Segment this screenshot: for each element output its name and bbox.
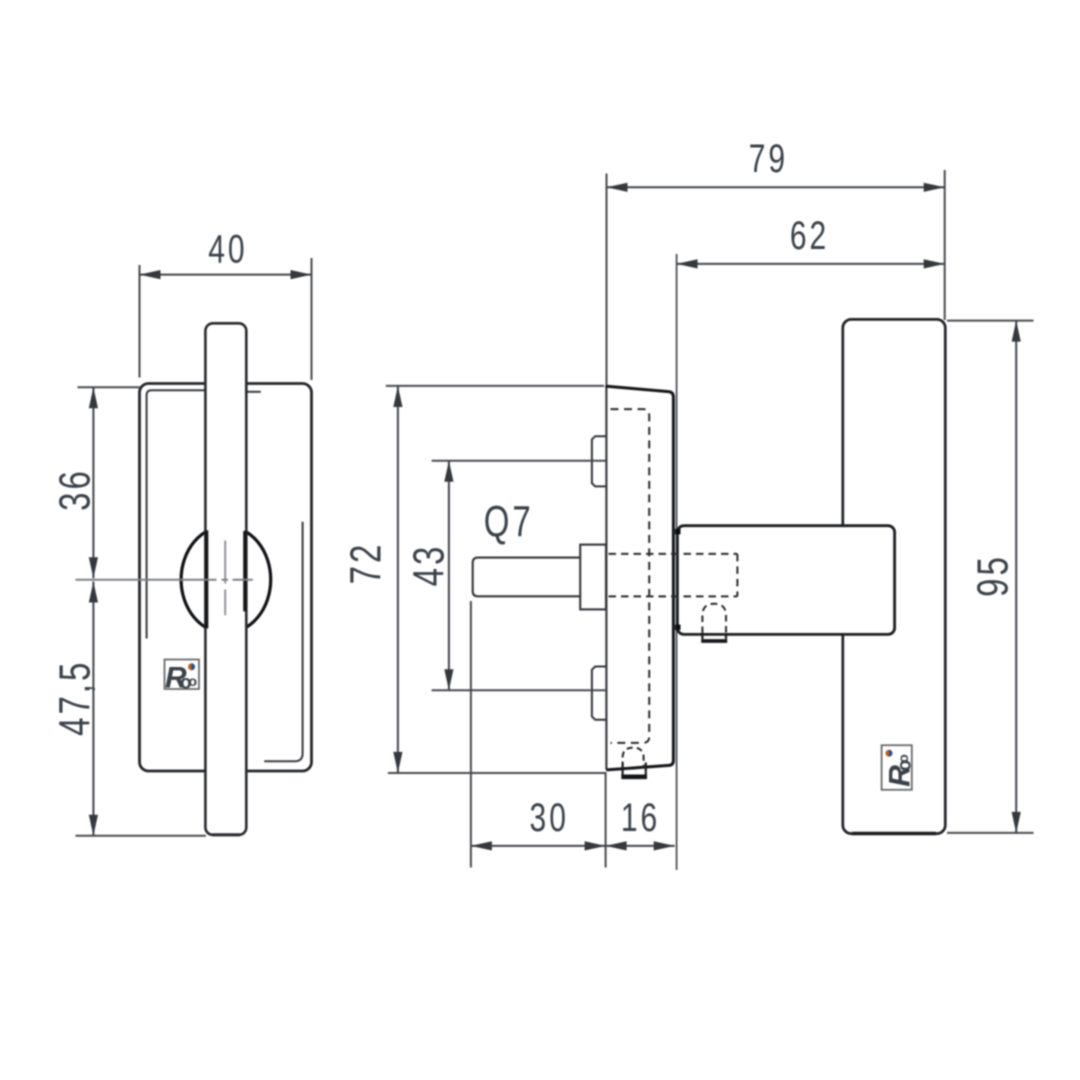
dimension 95 <box>947 321 1034 833</box>
front view: plate outer outline <box>140 384 312 772</box>
svg-text:43: 43 <box>405 544 454 587</box>
side view: top screw boss <box>592 436 606 486</box>
front view: rosette circle <box>181 526 271 633</box>
dimension 47,5 <box>51 582 206 836</box>
front view: horizontal centerline <box>76 579 253 581</box>
front view: vertical centerline <box>224 541 226 616</box>
front view: neck edges (thick) <box>205 530 208 628</box>
dimension 36 <box>51 387 139 578</box>
svg-text:o: o <box>189 673 202 689</box>
side view: Roto logo on grip (rotated) <box>882 745 917 790</box>
svg-text:Q7: Q7 <box>484 498 534 547</box>
svg-text:62: 62 <box>790 214 829 258</box>
front view: plate inner bevel top-left <box>147 390 206 638</box>
side view: neck clip dome (dashed) <box>702 604 726 633</box>
svg-text:95: 95 <box>969 554 1018 597</box>
svg-text:79: 79 <box>749 137 788 181</box>
svg-text:30: 30 <box>530 796 569 840</box>
dimension 62 <box>677 214 945 269</box>
side view: neck root dots <box>675 529 680 534</box>
side view: plate top/right/bottom outline (thick) <box>605 386 673 770</box>
svg-text:72: 72 <box>342 542 391 585</box>
svg-text:16: 16 <box>621 796 660 840</box>
side view: spindle <box>473 558 581 597</box>
side view: hidden spindle (dashed) <box>609 553 738 555</box>
side view: handle grip <box>843 319 946 833</box>
svg-text:o: o <box>895 750 911 763</box>
svg-text:40: 40 <box>208 227 247 271</box>
dimension 16 <box>606 796 675 851</box>
side view: neck clip bracket <box>702 635 726 640</box>
side view: 62/16 shared extension line <box>676 254 678 870</box>
dimension 30 <box>471 601 675 868</box>
side view: bottom screw boss <box>592 667 606 720</box>
front view: Roto logo on plate <box>165 660 202 695</box>
side view: plate clip dome (dashed) <box>623 748 644 768</box>
svg-text:47,5: 47,5 <box>51 660 100 736</box>
front view: plate inner bevel stub right of bar <box>247 391 260 393</box>
dimension 79 <box>607 137 945 385</box>
side view: plate left edge <box>605 386 607 770</box>
side view: spindle collar <box>580 545 606 610</box>
front view: plate inner bevel right-bottom <box>264 522 302 762</box>
svg-text:36: 36 <box>51 468 100 511</box>
side view: plate clip bracket <box>623 763 646 775</box>
dimension 72 <box>342 386 606 773</box>
side view: hidden plate inner rect (dashed) <box>611 409 650 743</box>
dimension 40 <box>140 227 312 380</box>
front view: handle bar <box>205 323 246 835</box>
dimension 43 <box>405 461 606 691</box>
side view: handle neck <box>677 526 894 635</box>
